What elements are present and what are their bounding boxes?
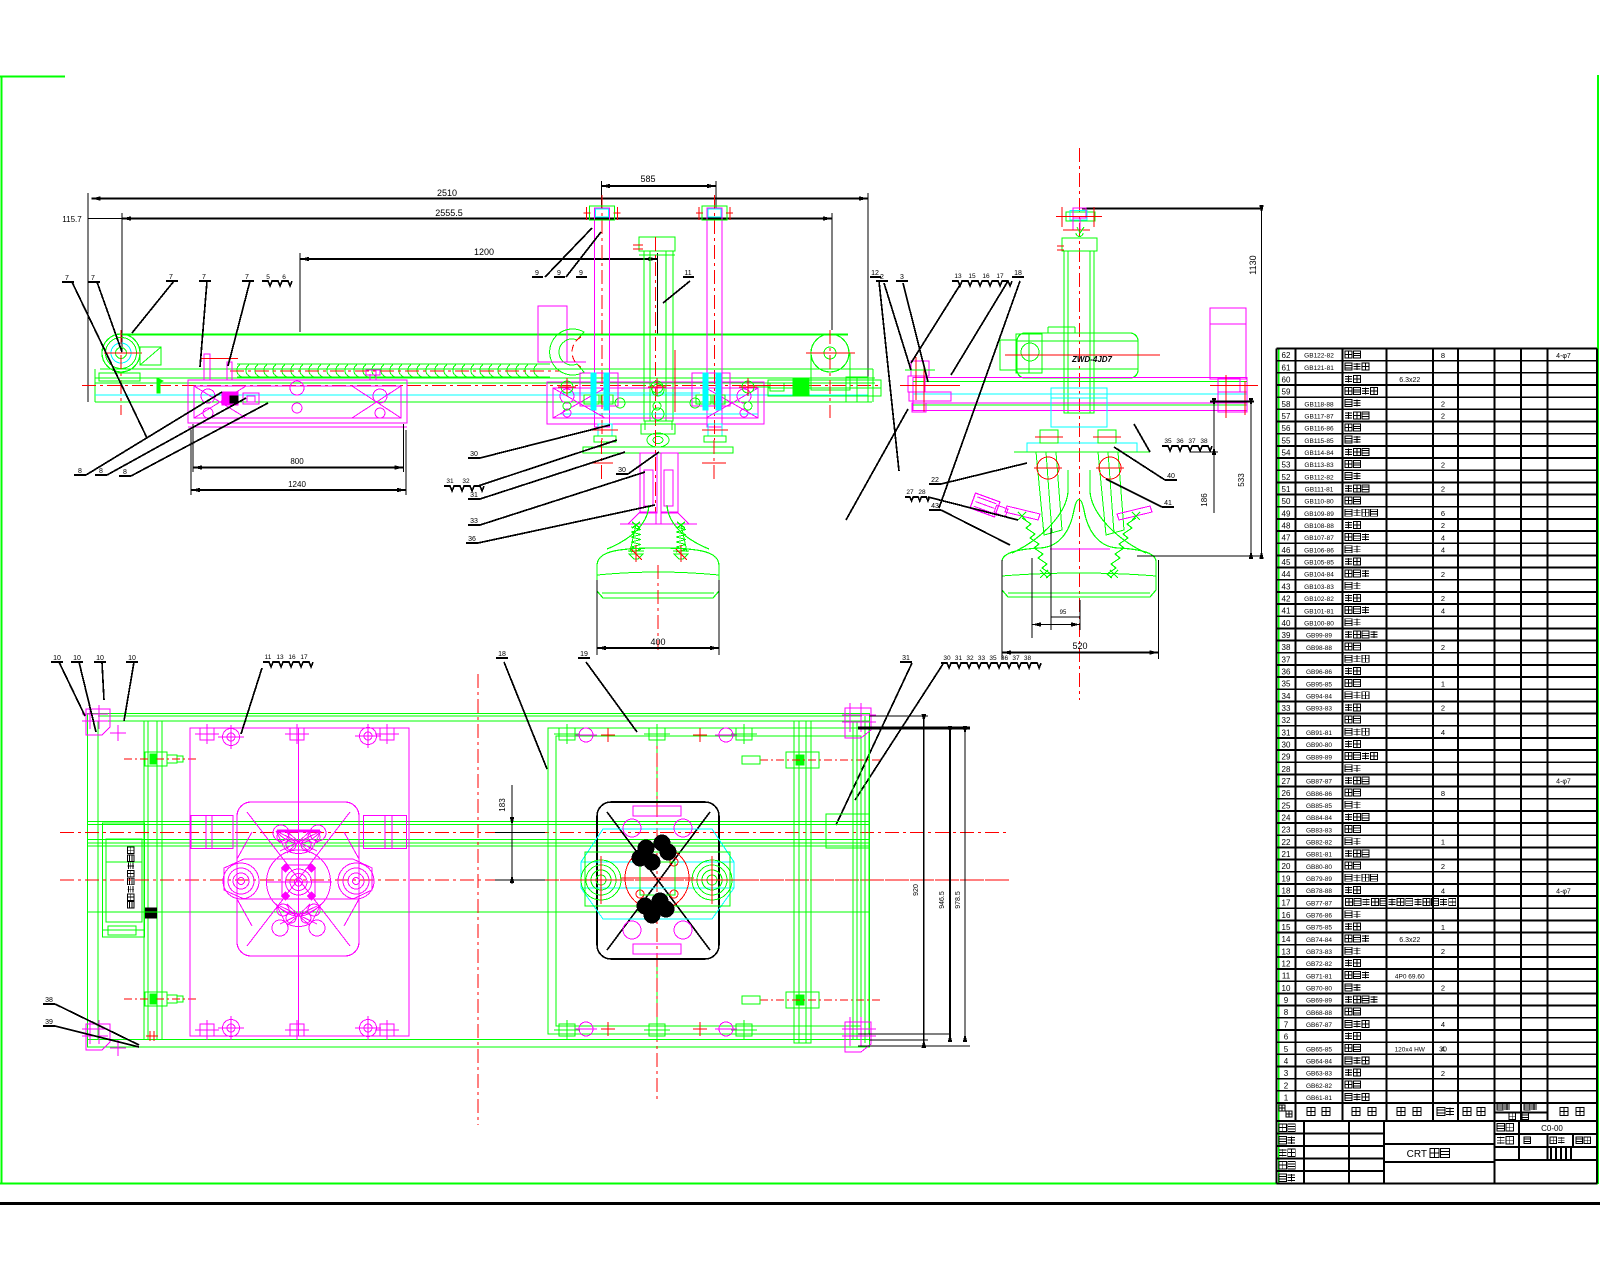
svg-text:9: 9	[579, 270, 583, 277]
svg-text:GB78-88: GB78-88	[1306, 888, 1332, 895]
svg-text:GB100-80: GB100-80	[1304, 620, 1334, 627]
svg-text:2: 2	[1441, 460, 1445, 469]
svg-text:4-φ7: 4-φ7	[1556, 888, 1571, 895]
svg-text:GB95-85: GB95-85	[1306, 681, 1332, 688]
svg-text:2: 2	[1441, 412, 1445, 421]
svg-text:GB79-89: GB79-89	[1306, 876, 1332, 883]
svg-text:31: 31	[902, 655, 910, 662]
svg-text:16: 16	[1282, 911, 1291, 920]
svg-text:30: 30	[618, 467, 626, 474]
svg-text:2: 2	[1441, 399, 1445, 408]
svg-text:GB86-86: GB86-86	[1306, 791, 1332, 798]
svg-text:36: 36	[1176, 438, 1184, 445]
svg-text:2: 2	[1441, 1069, 1445, 1078]
svg-text:95: 95	[1060, 610, 1067, 616]
svg-text:33: 33	[978, 655, 986, 662]
svg-text:GB87-87: GB87-87	[1306, 779, 1332, 786]
svg-text:10: 10	[96, 655, 104, 662]
svg-text:39: 39	[1282, 631, 1291, 640]
svg-text:GB75-85: GB75-85	[1306, 925, 1332, 932]
svg-text:36: 36	[468, 536, 476, 543]
svg-text:49: 49	[1282, 509, 1291, 518]
svg-text:51: 51	[1282, 485, 1291, 494]
svg-text:7: 7	[1284, 1020, 1289, 1029]
svg-text:GB90-80: GB90-80	[1306, 742, 1332, 749]
svg-text:4: 4	[1441, 728, 1445, 737]
svg-text:GB109-89: GB109-89	[1304, 511, 1334, 518]
svg-text:2: 2	[1441, 984, 1445, 993]
svg-text:CRT: CRT	[1407, 1149, 1427, 1160]
svg-text:38: 38	[1024, 655, 1032, 662]
svg-text:GB65-85: GB65-85	[1306, 1046, 1332, 1053]
svg-text:GB103-83: GB103-83	[1304, 584, 1334, 591]
svg-text:GB115-85: GB115-85	[1304, 438, 1334, 445]
svg-text:11: 11	[1282, 972, 1291, 981]
svg-text:43: 43	[931, 503, 939, 510]
svg-text:33: 33	[1282, 704, 1291, 713]
svg-text:5: 5	[266, 274, 270, 281]
svg-text:GB68-88: GB68-88	[1306, 1010, 1332, 1017]
svg-text:35: 35	[1164, 438, 1172, 445]
svg-text:585: 585	[640, 174, 655, 184]
svg-text:57: 57	[1282, 412, 1291, 421]
svg-text:GB101-81: GB101-81	[1304, 608, 1334, 615]
svg-text:GB99-89: GB99-89	[1306, 633, 1332, 640]
svg-text:6.3x22: 6.3x22	[1399, 937, 1420, 944]
svg-text:27: 27	[906, 489, 914, 496]
svg-text:8: 8	[1441, 351, 1445, 360]
svg-text:4: 4	[1441, 606, 1445, 615]
svg-text:40: 40	[1167, 473, 1175, 480]
svg-text:32: 32	[1282, 716, 1291, 725]
svg-text:2510: 2510	[437, 188, 457, 198]
svg-text:4-φ7: 4-φ7	[1556, 353, 1571, 360]
svg-text:23: 23	[1282, 826, 1291, 835]
svg-text:35: 35	[1282, 680, 1291, 689]
svg-text:19: 19	[580, 651, 588, 658]
svg-text:GB72-82: GB72-82	[1306, 961, 1332, 968]
svg-text:11: 11	[684, 270, 691, 277]
svg-text:17: 17	[1282, 899, 1291, 908]
svg-text:12: 12	[871, 270, 879, 277]
svg-text:32: 32	[462, 478, 470, 485]
svg-text:3: 3	[1284, 1069, 1289, 1078]
svg-text:32: 32	[966, 655, 974, 662]
svg-text:4: 4	[1284, 1057, 1289, 1066]
svg-text:GB105-85: GB105-85	[1304, 560, 1334, 567]
svg-text:54: 54	[1282, 448, 1291, 457]
svg-text:31: 31	[1282, 728, 1291, 737]
svg-text:33: 33	[470, 518, 478, 525]
svg-text:50: 50	[1282, 497, 1291, 506]
svg-text:28: 28	[918, 489, 926, 496]
svg-text:GB83-83: GB83-83	[1306, 827, 1332, 834]
svg-text:15: 15	[1282, 923, 1291, 932]
svg-text:52: 52	[1282, 473, 1291, 482]
svg-text:4: 4	[1441, 533, 1445, 542]
svg-text:GB118-88: GB118-88	[1304, 401, 1334, 408]
svg-text:1: 1	[1441, 923, 1445, 932]
svg-text:GB70-80: GB70-80	[1306, 986, 1332, 993]
svg-text:GB122-82: GB122-82	[1304, 353, 1334, 360]
svg-text:30: 30	[943, 655, 951, 662]
svg-text:4: 4	[1441, 886, 1445, 895]
svg-text:GB80-80: GB80-80	[1306, 864, 1332, 871]
svg-text:4: 4	[1441, 1020, 1445, 1029]
svg-text:946.5: 946.5	[939, 891, 946, 909]
svg-text:GB102-82: GB102-82	[1304, 596, 1334, 603]
svg-text:37: 37	[1188, 438, 1196, 445]
svg-text:GB107-87: GB107-87	[1304, 535, 1334, 542]
svg-text:183: 183	[498, 798, 507, 812]
svg-text:53: 53	[1282, 461, 1291, 470]
svg-text:43: 43	[1282, 582, 1291, 591]
svg-text:9: 9	[557, 270, 561, 277]
svg-text:38: 38	[1282, 643, 1291, 652]
svg-text:1: 1	[1284, 1093, 1289, 1102]
svg-text:2: 2	[1441, 862, 1445, 871]
svg-text:59: 59	[1282, 388, 1291, 397]
svg-text:20: 20	[1282, 862, 1291, 871]
svg-text:1: 1	[1441, 838, 1445, 847]
svg-text:41: 41	[1164, 500, 1172, 507]
svg-text:13: 13	[1282, 947, 1291, 956]
svg-text:GB82-82: GB82-82	[1306, 839, 1332, 846]
svg-text:GB67-87: GB67-87	[1306, 1022, 1332, 1029]
svg-text:2: 2	[1441, 947, 1445, 956]
svg-text:36: 36	[1282, 668, 1291, 677]
svg-text:GB93-83: GB93-83	[1306, 706, 1332, 713]
svg-text:GB110-80: GB110-80	[1304, 499, 1334, 506]
svg-text:GB96-86: GB96-86	[1306, 669, 1332, 676]
svg-text:18: 18	[498, 651, 506, 658]
svg-text:9: 9	[535, 270, 539, 277]
svg-text:GB74-84: GB74-84	[1306, 937, 1332, 944]
svg-text:GB76-86: GB76-86	[1306, 912, 1332, 919]
svg-text:GB106-86: GB106-86	[1304, 547, 1334, 554]
svg-text:62: 62	[1282, 351, 1291, 360]
svg-text:120x4 HW: 120x4 HW	[1395, 1046, 1426, 1053]
svg-text:520: 520	[1072, 641, 1087, 651]
svg-text:2: 2	[1284, 1081, 1289, 1090]
svg-text:35: 35	[989, 655, 997, 662]
svg-text:45: 45	[1282, 558, 1291, 567]
svg-text:6: 6	[1441, 509, 1445, 518]
svg-text:GB69-89: GB69-89	[1306, 998, 1332, 1005]
svg-text:GB84-84: GB84-84	[1306, 815, 1332, 822]
svg-text:978.5: 978.5	[955, 891, 962, 909]
svg-text:GB71-81: GB71-81	[1306, 973, 1332, 980]
svg-text:8: 8	[99, 468, 103, 475]
svg-text:10: 10	[53, 655, 61, 662]
svg-text:GB111-81: GB111-81	[1305, 487, 1334, 494]
svg-text:15: 15	[968, 273, 976, 280]
svg-text:9: 9	[1284, 996, 1289, 1005]
svg-text:39: 39	[45, 1019, 53, 1026]
svg-text:17: 17	[996, 273, 1004, 280]
svg-text:115.7: 115.7	[62, 215, 82, 224]
svg-text:GB104-84: GB104-84	[1304, 572, 1334, 579]
svg-text:4P0 69.60: 4P0 69.60	[1395, 973, 1425, 980]
svg-text:4: 4	[1441, 546, 1445, 555]
svg-text:GB117-87: GB117-87	[1304, 414, 1334, 421]
svg-text:11: 11	[265, 654, 272, 661]
svg-text:GB85-85: GB85-85	[1306, 803, 1332, 810]
svg-text:2: 2	[1441, 521, 1445, 530]
svg-text:2: 2	[1441, 485, 1445, 494]
svg-text:1200: 1200	[474, 247, 494, 257]
svg-text:2: 2	[1441, 704, 1445, 713]
svg-text:31: 31	[446, 478, 454, 485]
svg-text:7: 7	[65, 275, 69, 282]
svg-text:6.3x22: 6.3x22	[1399, 377, 1420, 384]
svg-text:7: 7	[169, 274, 173, 281]
svg-text:533: 533	[1237, 473, 1246, 487]
svg-text:16: 16	[982, 273, 990, 280]
svg-text:C0-00: C0-00	[1541, 1124, 1563, 1133]
svg-text:46: 46	[1282, 546, 1291, 555]
svg-text:13: 13	[954, 273, 962, 280]
svg-text:GB81-81: GB81-81	[1306, 852, 1332, 859]
svg-text:44: 44	[1282, 570, 1291, 579]
svg-text:8: 8	[1441, 789, 1445, 798]
svg-text:47: 47	[1282, 534, 1291, 543]
svg-text:GB73-83: GB73-83	[1306, 949, 1332, 956]
svg-text:GB62-82: GB62-82	[1306, 1083, 1332, 1090]
svg-text:34: 34	[1282, 692, 1291, 701]
svg-text:24: 24	[1282, 814, 1291, 823]
svg-text:6: 6	[282, 274, 286, 281]
svg-text:8: 8	[78, 468, 82, 475]
svg-text:36: 36	[1001, 655, 1009, 662]
svg-text:30: 30	[1282, 741, 1291, 750]
svg-text:1130: 1130	[1248, 255, 1258, 274]
svg-text:10: 10	[128, 655, 136, 662]
svg-text:GB114-84: GB114-84	[1304, 450, 1334, 457]
svg-text:1: 1	[1441, 679, 1445, 688]
svg-text:60: 60	[1282, 375, 1291, 384]
svg-text:14: 14	[1282, 935, 1291, 944]
svg-text:40: 40	[1282, 619, 1291, 628]
svg-text:7: 7	[202, 274, 206, 281]
svg-text:28: 28	[1282, 765, 1291, 774]
svg-text:37: 37	[1282, 655, 1291, 664]
svg-text:19: 19	[1282, 874, 1291, 883]
svg-text:37: 37	[1012, 655, 1020, 662]
svg-text:10: 10	[73, 655, 81, 662]
svg-text:13: 13	[276, 654, 284, 661]
svg-text:26: 26	[1282, 789, 1291, 798]
svg-text:56: 56	[1282, 424, 1291, 433]
svg-text:GB89-89: GB89-89	[1306, 754, 1332, 761]
svg-text:22: 22	[931, 477, 939, 484]
svg-text:12: 12	[1282, 960, 1291, 969]
svg-text:48: 48	[1282, 521, 1291, 530]
svg-text:31: 31	[955, 655, 963, 662]
svg-text:4: 4	[1441, 1044, 1445, 1053]
svg-text:GB116-86: GB116-86	[1304, 426, 1334, 433]
svg-text:16: 16	[288, 654, 296, 661]
svg-text:GB91-81: GB91-81	[1306, 730, 1332, 737]
svg-text:400: 400	[650, 637, 665, 647]
svg-text:GB98-88: GB98-88	[1306, 645, 1332, 652]
svg-text:GB61-81: GB61-81	[1306, 1095, 1332, 1102]
svg-text:25: 25	[1282, 801, 1291, 810]
svg-text:30: 30	[470, 451, 478, 458]
svg-text:42: 42	[1282, 594, 1291, 603]
svg-text:6: 6	[1284, 1033, 1289, 1042]
svg-text:7: 7	[245, 274, 249, 281]
svg-text:58: 58	[1282, 400, 1291, 409]
svg-text:4-φ7: 4-φ7	[1556, 779, 1571, 786]
svg-text:2: 2	[1441, 570, 1445, 579]
svg-text:22: 22	[1282, 838, 1291, 847]
svg-text:920: 920	[913, 884, 920, 896]
svg-text:GB108-88: GB108-88	[1304, 523, 1334, 530]
svg-text:800: 800	[290, 457, 304, 466]
svg-text:GB63-83: GB63-83	[1306, 1071, 1332, 1078]
svg-text:5: 5	[1284, 1045, 1289, 1054]
svg-text:31: 31	[470, 492, 478, 499]
svg-text:8: 8	[1284, 1008, 1289, 1017]
svg-text:18: 18	[1282, 887, 1291, 896]
svg-text:2: 2	[1441, 643, 1445, 652]
svg-text:ZWD-4JD7: ZWD-4JD7	[1071, 355, 1113, 364]
svg-text:2: 2	[880, 274, 884, 281]
svg-text:38: 38	[45, 997, 53, 1004]
svg-text:55: 55	[1282, 436, 1291, 445]
svg-text:7: 7	[91, 275, 95, 282]
svg-text:29: 29	[1282, 753, 1291, 762]
svg-text:GB121-81: GB121-81	[1304, 365, 1334, 372]
svg-text:1240: 1240	[288, 480, 306, 489]
svg-text:61: 61	[1282, 363, 1291, 372]
svg-text:38: 38	[1200, 438, 1208, 445]
svg-text:18: 18	[1014, 270, 1022, 277]
svg-text:GB77-87: GB77-87	[1306, 900, 1332, 907]
svg-text:GB113-83: GB113-83	[1304, 462, 1334, 469]
svg-text:GB64-84: GB64-84	[1306, 1059, 1332, 1066]
svg-text:186: 186	[1200, 493, 1209, 507]
svg-text:3: 3	[900, 274, 904, 281]
svg-text:GB94-84: GB94-84	[1306, 693, 1332, 700]
svg-text:GB112-82: GB112-82	[1304, 474, 1334, 481]
svg-text:2555.5: 2555.5	[435, 208, 463, 218]
svg-text:2: 2	[1441, 594, 1445, 603]
svg-text:17: 17	[300, 654, 308, 661]
svg-text:8: 8	[123, 469, 127, 476]
svg-text:41: 41	[1282, 607, 1291, 616]
svg-text:27: 27	[1282, 777, 1291, 786]
svg-text:21: 21	[1282, 850, 1291, 859]
svg-text:10: 10	[1282, 984, 1291, 993]
